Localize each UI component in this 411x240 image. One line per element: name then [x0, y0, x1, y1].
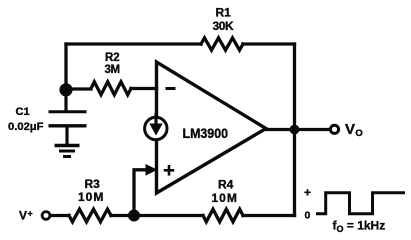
- ground: [55, 146, 80, 157]
- svg-text:+: +: [304, 186, 311, 200]
- resistor R4: [203, 209, 243, 222]
- svg-text:R1: R1: [216, 5, 232, 19]
- wire right vertical (output node to bottom corner): [293, 130, 296, 216]
- svg-text:0: 0: [305, 210, 311, 222]
- resistor R3: [69, 209, 111, 222]
- Vo output terminal circle: [330, 125, 338, 133]
- svg-text:R2: R2: [105, 52, 120, 64]
- node B junction dot: [128, 210, 140, 222]
- capacitor C1 top lead: [64, 90, 67, 111]
- svg-text:3M: 3M: [105, 64, 120, 76]
- capacitor C1 bottom lead: [65, 126, 68, 145]
- V+ input terminal circle: [42, 212, 50, 220]
- wire top-left vertical (node A to top rail): [64, 44, 67, 90]
- wire node B to R3: [111, 214, 134, 217]
- wire R2 to inverting input: [131, 87, 157, 90]
- svg-text:10M: 10M: [78, 190, 104, 204]
- op-amp U1 triangle: [157, 62, 267, 193]
- svg-text:LM3900: LM3900: [183, 126, 229, 141]
- wire top rail left segment: [66, 42, 201, 45]
- capacitor C1 bottom plate: [49, 124, 87, 127]
- wire V+ terminal lead: [50, 214, 69, 217]
- op-amp non-inverting input plus sign: [164, 165, 174, 176]
- square wave plot trace: [316, 193, 405, 214]
- svg-text:10M: 10M: [212, 191, 238, 205]
- wire bottom rail right segment: [243, 214, 295, 217]
- wire right vertical (top corner to output node): [293, 44, 296, 130]
- resistor R2: [91, 82, 131, 95]
- svg-text:R3: R3: [85, 177, 101, 191]
- current source arrow shaft: [154, 113, 157, 127]
- resistor R1: [201, 38, 243, 50]
- wire top rail right segment: [243, 42, 295, 45]
- node A junction dot: [59, 83, 72, 96]
- svg-text:fO = 1kHz: fO = 1kHz: [333, 219, 386, 235]
- svg-text:C1: C1: [16, 106, 30, 118]
- svg-text:VO: VO: [345, 121, 363, 139]
- output node junction dot: [290, 125, 300, 135]
- wire node B up to non-inverting arrow: [134, 170, 147, 216]
- wire output node to Vo terminal: [295, 128, 331, 131]
- svg-text:0.02μF: 0.02μF: [8, 121, 44, 133]
- svg-text:V+: V+: [19, 208, 33, 222]
- svg-text:30K: 30K: [213, 19, 235, 33]
- current source arrowhead: [149, 124, 162, 136]
- wire output to node: [266, 128, 295, 131]
- wire bottom rail middle segment: [134, 214, 203, 217]
- wire node A to R2: [66, 87, 91, 90]
- capacitor C1 top plate: [49, 110, 87, 113]
- current source CS circle: [145, 117, 167, 139]
- svg-text:R4: R4: [218, 177, 234, 191]
- op-amp inverting input minus sign: [166, 87, 176, 90]
- non-inverting input arrowhead: [146, 164, 158, 176]
